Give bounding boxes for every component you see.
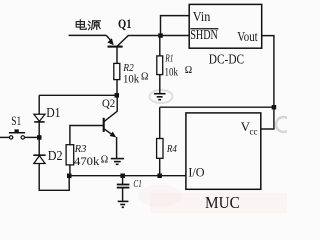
watermark pink xyxy=(150,193,287,213)
transistor Q2 xyxy=(102,98,117,137)
wire bottom rail xyxy=(69,175,186,177)
svg-text:cc: cc xyxy=(250,126,258,136)
node R4 bottom junction xyxy=(157,174,162,179)
svg-text:D2: D2 xyxy=(48,148,63,163)
capacitor C1 xyxy=(117,176,142,202)
svg-text:Q2: Q2 xyxy=(102,98,115,110)
wire R1 top lead xyxy=(159,36,161,56)
ground Q2 xyxy=(111,159,124,165)
wire Q2 collector lead xyxy=(116,95,118,111)
node Vcc net junction xyxy=(272,105,277,110)
wire Q2 base / R3 top xyxy=(70,126,104,145)
node R3 bottom junction xyxy=(67,174,72,179)
wire left rail bottom L xyxy=(39,164,69,191)
wire Q2 emitter lead xyxy=(116,137,118,159)
svg-text:DC-DC: DC-DC xyxy=(209,52,244,67)
wire Vin branch xyxy=(161,16,190,36)
svg-text:I/O: I/O xyxy=(188,165,204,180)
svg-text:Ω: Ω xyxy=(185,65,192,76)
svg-text:10k: 10k xyxy=(165,64,179,78)
diode D1 xyxy=(34,105,61,122)
watermark ellipse xyxy=(150,90,173,103)
resistor R2 xyxy=(114,63,149,86)
IC U1 DC-DC xyxy=(189,4,262,67)
wire collector to SHDN xyxy=(128,35,190,37)
diode D2 xyxy=(33,148,62,164)
svg-text:MUC: MUC xyxy=(205,193,240,212)
node R2/Q2 collector xyxy=(115,93,120,98)
wire R3 bottom lead xyxy=(69,165,71,176)
svg-text:Ω: Ω xyxy=(141,71,148,82)
svg-text:C1: C1 xyxy=(133,179,141,190)
switch S1 xyxy=(0,114,39,139)
wire Vout to Vcc xyxy=(261,36,274,129)
label 电源 xyxy=(76,20,100,30)
svg-text:R4: R4 xyxy=(166,143,177,155)
resistor R1 xyxy=(157,53,192,78)
resistor R3 xyxy=(66,144,108,168)
wire R1 bottom lead xyxy=(159,75,161,94)
wire power feed xyxy=(69,35,111,40)
wire R2 bottom lead xyxy=(116,80,118,96)
svg-text:470k: 470k xyxy=(74,154,99,168)
wire R4 top to Vcc net xyxy=(160,106,274,108)
ground R1 xyxy=(154,94,166,100)
svg-text:10k: 10k xyxy=(123,72,139,86)
IC U2 MUC xyxy=(186,113,261,212)
node SHDN/Vin junction xyxy=(158,33,163,38)
wire left rail mid xyxy=(38,122,40,155)
transistor Q1 xyxy=(107,16,131,63)
node C1 junction xyxy=(120,174,125,179)
svg-text:S1: S1 xyxy=(11,114,21,128)
watermark ring xyxy=(276,117,291,132)
svg-text:Vin: Vin xyxy=(193,9,211,24)
svg-text:Ω: Ω xyxy=(101,154,108,165)
wire node to left rail xyxy=(39,94,117,96)
svg-text:Q1: Q1 xyxy=(118,16,132,31)
svg-text:R1: R1 xyxy=(164,53,173,64)
svg-text:SHDN: SHDN xyxy=(190,27,218,42)
ground C1 xyxy=(118,201,129,207)
wire left rail top xyxy=(38,95,40,114)
svg-text:D1: D1 xyxy=(46,105,60,120)
resistor R4 xyxy=(157,107,178,176)
svg-text:Vout: Vout xyxy=(237,29,258,44)
node S1/rail junction xyxy=(37,135,42,140)
